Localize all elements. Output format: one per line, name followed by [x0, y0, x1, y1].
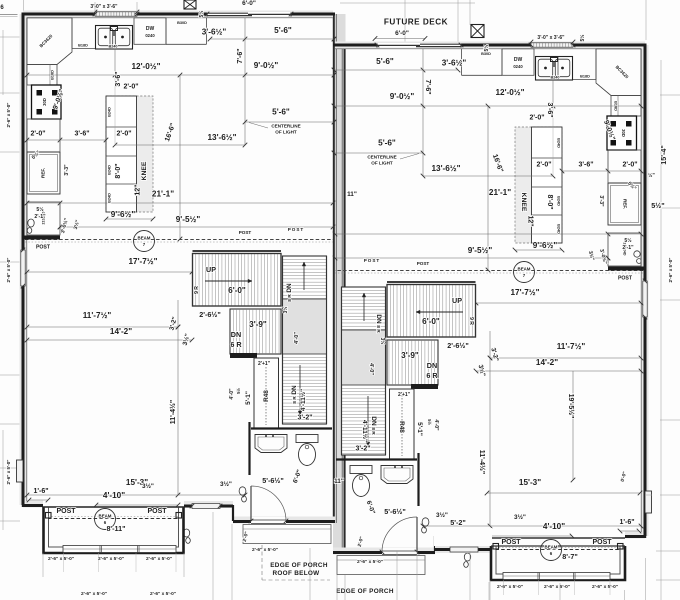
svg-text:30D: 30D [621, 129, 626, 137]
svg-text:4'-0": 4'-0" [294, 332, 300, 344]
svg-text:3'-6": 3'-6" [546, 102, 553, 117]
left wall window 1 [21, 250, 25, 286]
dim line 5-6 centerline of light [245, 121, 334, 123]
sheet margin lines left edge [0, 14, 18, 16]
svg-text:17'-7½": 17'-7½" [510, 288, 539, 297]
dim line 17-7.5 [27, 271, 192, 273]
dim line 15-3 [27, 494, 245, 496]
svg-text:8'-11": 8'-11" [106, 524, 125, 533]
svg-text:2'-6" x 5'-0": 2'-6" x 5'-0" [497, 584, 523, 590]
window opening top wall above sink [95, 12, 137, 16]
svg-text:5½: 5½ [36, 206, 44, 213]
svg-text:3'-2": 3'-2" [355, 446, 370, 453]
kitchen island with knee overhang [106, 96, 153, 212]
svg-text:3'-9": 3'-9" [249, 320, 267, 329]
svg-text:B24D: B24D [108, 107, 112, 117]
svg-text:KNEE: KNEE [141, 161, 148, 180]
svg-text:2'-0": 2'-0" [30, 131, 45, 138]
dim line 9-6.5 under island [106, 218, 153, 220]
porch front windows [63, 546, 176, 553]
svg-text:2'+1": 2'+1" [398, 392, 411, 398]
svg-text:9'-5½": 9'-5½" [468, 246, 493, 255]
svg-text:12'-0½": 12'-0½" [131, 62, 160, 71]
svg-text:3½: 3½ [379, 338, 386, 345]
svg-text:REF.: REF. [623, 199, 628, 209]
svg-text:POST: POST [288, 227, 305, 232]
svg-text:3'-9": 3'-9" [401, 351, 419, 360]
vertical dim 16-6 [179, 75, 181, 239]
svg-text:BEAM: BEAM [545, 545, 558, 550]
svg-text:2'-6" x 5'-0": 2'-6" x 5'-0" [6, 460, 11, 485]
svg-text:8 R: 8 R [287, 294, 293, 302]
svg-text:B18D: B18D [580, 75, 590, 79]
svg-text:5'-6½": 5'-6½" [384, 507, 406, 516]
sliding door opening top wall [207, 12, 291, 17]
base cabinet below refrigerator [27, 202, 60, 235]
dim line 21-1 [27, 202, 333, 204]
svg-text:DN: DN [286, 283, 293, 293]
dim line 1-6 [29, 499, 48, 501]
svg-text:B30D: B30D [177, 21, 187, 25]
svg-text:DW: DW [146, 26, 155, 32]
pantry closet R48 [254, 358, 279, 428]
svg-text:15'-3": 15'-3" [519, 478, 541, 487]
bathroom vanity sink [255, 435, 287, 453]
svg-text:4'-0": 4'-0" [368, 363, 374, 375]
svg-text:5½": 5½" [651, 201, 664, 210]
wall below stairs [251, 427, 332, 429]
svg-text:3½: 3½ [282, 307, 289, 314]
svg-text:3'-6": 3'-6" [578, 162, 593, 169]
bottom right corner jog of right wall [645, 494, 652, 496]
svg-text:2'-6" x 5'-0": 2'-6" x 5'-0" [6, 103, 11, 128]
bottom wall of unit [22, 504, 43, 507]
svg-text:13'-6½": 13'-6½" [431, 164, 460, 173]
DN arrow vertical stair [303, 262, 305, 290]
svg-text:9'-0½": 9'-0½" [390, 92, 415, 101]
dim line 4-10 [96, 504, 178, 506]
svg-text:UP: UP [452, 296, 462, 305]
svg-text:R48: R48 [398, 421, 405, 433]
centerline leader line [249, 123, 268, 129]
top margin lines [340, 2, 475, 4]
svg-text:DN: DN [375, 314, 382, 324]
svg-text:2'-6" x 5'-0": 2'-6" x 5'-0" [150, 591, 176, 597]
svg-text:POST: POST [239, 230, 252, 235]
svg-text:9'-0½": 9'-0½" [254, 61, 279, 70]
deck post symbol with X [471, 25, 484, 38]
svg-text:9'-6½": 9'-6½" [111, 210, 136, 219]
svg-text:B240: B240 [550, 76, 559, 80]
porch front windows [503, 573, 610, 580]
left wall cabinet B18D below corner [27, 65, 57, 86]
svg-text:POST: POST [592, 539, 612, 546]
svg-text:8'-0": 8'-0" [115, 163, 122, 178]
svg-text:3'-2": 3'-2" [297, 415, 312, 422]
tag circles at porch sides and walls [183, 529, 189, 537]
svg-text:0240: 0240 [513, 64, 523, 69]
svg-text:B18D: B18D [614, 101, 618, 111]
svg-text:BEAM: BEAM [518, 267, 531, 272]
svg-text:B24D: B24D [557, 196, 561, 206]
svg-text:3'-6½": 3'-6½" [442, 59, 467, 68]
svg-text:8'-7": 8'-7" [562, 552, 578, 561]
svg-text:OF LIGHT: OF LIGHT [371, 161, 393, 166]
svg-text:2'-0": 2'-0" [622, 162, 637, 169]
svg-text:3½": 3½" [220, 480, 232, 488]
svg-text:5½: 5½ [427, 419, 432, 425]
svg-text:5'-1": 5'-1" [245, 391, 252, 405]
vertical dim 11-4.5 [177, 300, 179, 495]
svg-text:13'-6½": 13'-6½" [207, 133, 236, 142]
svg-text:2'-6" x 5'-0": 2'-6" x 5'-0" [6, 258, 11, 283]
svg-text:14'-2": 14'-2" [536, 358, 558, 367]
svg-text:3'-0" x 3'-6": 3'-0" x 3'-6" [90, 4, 118, 10]
svg-text:B240: B240 [108, 45, 117, 49]
svg-text:5'-6": 5'-6" [378, 139, 396, 148]
refrigerator [27, 152, 60, 194]
right unit extra dims [487, 492, 640, 494]
cabinet below stove [27, 119, 60, 152]
svg-text:DN: DN [427, 361, 437, 370]
svg-text:KNEE: KNEE [520, 193, 527, 212]
dim line 14-2 [27, 339, 192, 341]
porch walls [44, 507, 184, 553]
porch beam tag circle [541, 540, 562, 561]
svg-text:2'-0": 2'-0" [529, 115, 544, 122]
svg-text:9'-6½": 9'-6½" [533, 241, 558, 250]
svg-text:3½": 3½" [142, 482, 154, 490]
svg-text:FUTURE DECK: FUTURE DECK [384, 18, 448, 27]
dishwasher DW [134, 18, 166, 45]
dashed porch edge lines bottom [261, 545, 263, 580]
svg-text:4'-0": 4'-0" [433, 419, 439, 431]
kitchen counter B18D beside corner cabinet [71, 18, 73, 49]
svg-text:B18D: B18D [78, 44, 88, 48]
svg-text:11'-7½": 11'-7½" [83, 311, 112, 320]
svg-text:19'-5½": 19'-5½" [567, 394, 575, 419]
toilet [296, 435, 318, 443]
svg-text:DN: DN [291, 385, 298, 395]
svg-text:21'-1": 21'-1" [489, 188, 511, 197]
svg-text:POST: POST [364, 258, 381, 263]
outer walls of unit [23, 14, 335, 520]
dim line 11-7.5 [27, 326, 178, 328]
svg-text:3½": 3½" [436, 511, 448, 519]
svg-text:B30D: B30D [481, 52, 491, 56]
entry door leaf and swing [250, 486, 252, 521]
svg-text:5'-1": 5'-1" [416, 422, 423, 436]
entry door threshold [251, 517, 286, 525]
svg-text:2'-6" x 5'-0": 2'-6" x 5'-0" [81, 591, 107, 597]
svg-text:2'-6½": 2'-6½" [447, 341, 469, 350]
svg-text:6'-0": 6'-0" [395, 30, 409, 37]
svg-text:ROOF BELOW: ROOF BELOW [272, 570, 320, 577]
svg-text:11'-4½": 11'-4½" [169, 400, 177, 424]
svg-text:6'-0": 6'-0" [242, 0, 256, 7]
svg-text:3'-6": 3'-6" [74, 131, 89, 138]
svg-text:2'-1": 2'-1" [34, 214, 46, 220]
svg-text:5'-6": 5'-6" [376, 57, 394, 66]
svg-text:2'-6½": 2'-6½" [199, 310, 221, 319]
svg-text:6'-0": 6'-0" [228, 286, 246, 295]
left wall bay window [17, 460, 24, 482]
stair landing gray [283, 299, 327, 354]
svg-text:POST: POST [417, 261, 430, 266]
kitchen sink double bowl [96, 26, 133, 50]
svg-text:1'-6": 1'-6" [619, 519, 634, 526]
tick marks at wall openings [93, 12, 98, 17]
porch walls [491, 546, 625, 580]
svg-text:1'-6": 1'-6" [33, 488, 48, 495]
svg-text:3'-6": 3'-6" [115, 71, 122, 86]
counter B30D [165, 18, 167, 45]
svg-text:14'-2": 14'-2" [110, 327, 132, 336]
bottom guide lines [212, 512, 214, 600]
svg-text:12'-0½": 12'-0½" [495, 88, 524, 97]
svg-text:2'-0": 2'-0" [536, 162, 551, 169]
svg-text:8'-0": 8'-0" [546, 194, 553, 209]
svg-text:15'-4": 15'-4" [659, 145, 668, 165]
svg-text:6'-0": 6'-0" [422, 317, 440, 326]
right unit bottom wall correction [434, 528, 492, 546]
svg-text:2'+1": 2'+1" [258, 361, 271, 367]
porch posts [493, 544, 499, 550]
svg-text:3'-3": 3'-3" [64, 164, 70, 176]
svg-text:4'-11½": 4'-11½" [361, 420, 369, 442]
svg-text:9'-5½": 9'-5½" [176, 215, 201, 224]
svg-text:B24D: B24D [108, 165, 112, 175]
entry stoop [243, 525, 331, 544]
svg-text:2'-6" x 5'-0": 2'-6" x 5'-0" [592, 584, 618, 590]
bathroom wall vertical [248, 422, 250, 475]
svg-text:6 R: 6 R [230, 340, 242, 349]
svg-text:2'-6" x 5'-0": 2'-6" x 5'-0" [357, 559, 383, 565]
svg-text:DN: DN [231, 330, 241, 339]
svg-text:R48: R48 [263, 390, 270, 402]
staircase UP 9R [193, 254, 282, 307]
svg-text:30D: 30D [42, 98, 47, 106]
svg-text:5½: 5½ [579, 35, 586, 42]
svg-text:POST: POST [147, 508, 167, 515]
svg-text:POST: POST [56, 508, 76, 515]
stove cooktop [32, 85, 62, 119]
svg-text:BEAM: BEAM [99, 514, 112, 519]
svg-text:B24D: B24D [557, 138, 561, 148]
svg-text:2'-6" x 5'-0": 2'-6" x 5'-0" [544, 584, 570, 590]
bottom wall jog near entry [232, 505, 234, 521]
window in bottom wall [192, 504, 220, 509]
party wall extension guides below units [336, 575, 338, 600]
svg-text:2'-6" x 5'-0": 2'-6" x 5'-0" [668, 258, 673, 283]
svg-text:DN: DN [370, 416, 377, 426]
svg-text:17'-7½": 17'-7½" [128, 257, 157, 266]
dim line under island 2-0 3-6 2-0 [27, 139, 106, 141]
svg-text:2'-0": 2'-0" [116, 131, 131, 138]
svg-text:3'-0" x 3'-6": 3'-0" x 3'-6" [537, 35, 565, 41]
porch beam tag circle [95, 509, 116, 530]
door tag circles near entry [239, 487, 246, 495]
right unit mirrored geometry [332, 43, 652, 575]
svg-text:9 R: 9 R [194, 286, 200, 294]
porch beam dashed line [496, 549, 621, 551]
svg-text:B24D: B24D [108, 193, 112, 203]
kitchen corner cabinet [27, 18, 72, 65]
svg-text:11": 11" [334, 478, 344, 485]
short interior wall at kitchen divider [24, 236, 60, 240]
svg-text:REF.: REF. [41, 168, 46, 178]
svg-text:BEAM: BEAM [138, 236, 151, 241]
svg-text:3'-3": 3'-3" [598, 195, 604, 207]
svg-text:CENTERLINE: CENTERLINE [271, 124, 300, 129]
svg-text:5½: 5½ [624, 237, 632, 244]
svg-text:4'-10": 4'-10" [543, 522, 565, 531]
beam dashed line across unit [25, 239, 333, 241]
svg-text:4'-11½": 4'-11½" [299, 389, 307, 411]
svg-text:5½: 5½ [483, 45, 490, 52]
svg-text:11": 11" [347, 191, 357, 198]
svg-text:POST: POST [501, 539, 521, 546]
svg-text:3½": 3½" [514, 513, 526, 521]
staircase DN 6R [230, 309, 281, 354]
svg-text:POST: POST [618, 276, 633, 282]
dim line 9-5.5 [60, 226, 333, 228]
dim line 12-0.5 / 9-0.5 [27, 74, 334, 76]
dim line 13-6.5 [115, 144, 245, 146]
svg-text:OF LIGHT: OF LIGHT [275, 130, 297, 135]
UP arrow [205, 280, 252, 282]
porch posts [46, 513, 52, 519]
svg-text:CENTERLINE: CENTERLINE [367, 155, 396, 160]
stair DN 8R along party wall [283, 256, 327, 424]
svg-text:8 R: 8 R [292, 396, 298, 404]
svg-text:POST: POST [36, 245, 51, 251]
svg-text:4'-10": 4'-10" [103, 491, 125, 500]
svg-text:8 R: 8 R [370, 427, 376, 435]
svg-text:6 R: 6 R [426, 371, 438, 380]
svg-text:5½: 5½ [236, 388, 241, 394]
svg-text:11'-4½": 11'-4½" [478, 450, 486, 474]
porch beam dashed line [48, 518, 179, 520]
svg-text:2'-1": 2'-1" [622, 245, 634, 251]
svg-text:2'-6" x 5'-0": 2'-6" x 5'-0" [252, 547, 278, 553]
svg-text:9 R: 9 R [468, 317, 474, 325]
svg-text:5'-6½": 5'-6½" [262, 476, 284, 485]
sheet margin lines right edge [660, 94, 680, 96]
svg-text:5'-6": 5'-6" [274, 26, 292, 35]
svg-text:UP: UP [206, 265, 216, 274]
svg-text:12": 12" [135, 184, 142, 195]
dim line 3-6.5 and 5-6 at top [210, 38, 334, 40]
wall stub left of pantry [230, 353, 257, 358]
svg-text:3'-6½": 3'-6½" [202, 28, 227, 37]
svg-text:0240: 0240 [145, 33, 155, 38]
svg-text:4'-0": 4'-0" [229, 388, 235, 400]
svg-text:2'-6" x 5'-0": 2'-6" x 5'-0" [48, 556, 74, 562]
svg-text:21'-1": 21'-1" [152, 190, 174, 199]
party wall between units [333, 14, 346, 551]
top left post symbol with X [184, 0, 196, 9]
svg-text:2'-6" x 5'-0": 2'-6" x 5'-0" [146, 556, 172, 562]
svg-text:7'-6": 7'-6" [424, 79, 431, 94]
svg-text:2'-6" x 5'-0": 2'-6" x 5'-0" [98, 556, 124, 562]
svg-text:2'-0": 2'-0" [123, 84, 138, 91]
svg-text:B24D: B24D [557, 224, 561, 234]
svg-text:5'-2": 5'-2" [450, 518, 466, 527]
svg-text:8 R: 8 R [375, 325, 381, 333]
svg-text:DW: DW [514, 57, 523, 63]
svg-text:5½: 5½ [198, 11, 205, 18]
svg-text:12": 12" [527, 215, 534, 226]
svg-text:B18D: B18D [51, 70, 55, 80]
beam tag circle mid unit [134, 231, 155, 252]
svg-text:5'-6": 5'-6" [272, 108, 290, 117]
svg-text:11'-7½": 11'-7½" [557, 342, 586, 351]
svg-text:7'-6": 7'-6" [237, 48, 244, 63]
left porch guides [42, 553, 44, 577]
svg-text:EDGE OF PORCH: EDGE OF PORCH [270, 562, 328, 569]
